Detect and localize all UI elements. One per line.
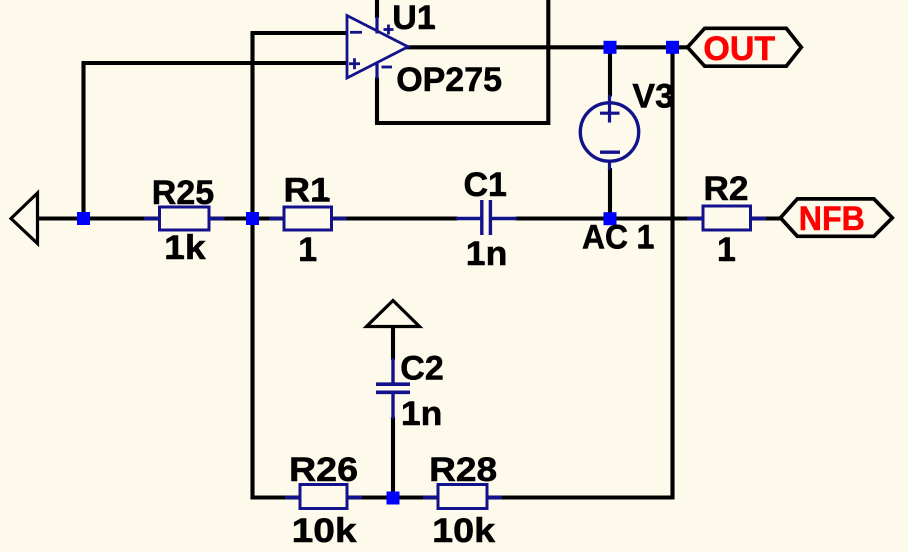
- resistor R2: [687, 206, 766, 230]
- wire ground triangle to C2: [391, 327, 395, 361]
- port triangle input (left): [11, 193, 38, 244]
- wire main horizontal net (y=218.5) right part: [516, 216, 781, 220]
- svg-text:R28: R28: [429, 451, 497, 489]
- svg-text:R26: R26: [289, 451, 358, 489]
- wire right vertical (x=672.5): [670, 47, 674, 499]
- svg-text:OUT: OUT: [703, 30, 775, 68]
- op-amp U1 non-inverting input mark: [349, 58, 360, 69]
- op-amp U1 V- pin: [375, 63, 378, 79]
- wire op-amp non-inverting input (horizontal, y=63): [82, 61, 348, 65]
- wire supply bottom horizontal (y=122.5): [375, 121, 550, 125]
- capacitor C1: [456, 200, 517, 235]
- junction node at input port: [77, 212, 90, 225]
- op-amp U1 inverting input mark: [350, 31, 362, 34]
- svg-text:1k: 1k: [164, 229, 206, 267]
- capacitor C2: [376, 358, 410, 419]
- wire input vertical (x=83.5): [81, 61, 85, 218]
- svg-text:R25: R25: [152, 174, 214, 212]
- svg-text:1: 1: [717, 231, 736, 269]
- net flag NFB hexagon: [780, 199, 892, 236]
- svg-text:C1: C1: [464, 166, 507, 204]
- serif feet of digit 1 glyphs (font detail): [167, 25, 734, 542]
- voltage source V3: [580, 95, 638, 170]
- op-amp U1 V+ plus mark: [384, 25, 394, 35]
- svg-text:NFB: NFB: [799, 200, 865, 238]
- svg-text:C2: C2: [400, 350, 443, 388]
- wire V3 top connection: [608, 47, 612, 96]
- svg-text:10k: 10k: [432, 512, 495, 550]
- svg-text:OP275: OP275: [396, 61, 502, 99]
- svg-text:1: 1: [298, 231, 317, 269]
- wire main horizontal net (y=218.5) left part: [38, 216, 458, 220]
- wire left feedback vertical (x=252.5): [250, 31, 254, 499]
- svg-text:1n: 1n: [466, 235, 508, 273]
- svg-text:10k: 10k: [292, 512, 357, 550]
- port triangle ground (up, above C2): [367, 301, 420, 327]
- svg-text:1n: 1n: [401, 395, 443, 433]
- junction node C2/bottom net: [387, 492, 400, 505]
- op-amp U1 triangle: [347, 16, 408, 79]
- svg-text:U1: U1: [392, 0, 435, 37]
- wire V3 bottom connection: [608, 168, 612, 219]
- junction node V3 bottom/main net: [604, 212, 617, 225]
- resistor R25: [144, 207, 225, 230]
- wire op-amp V- supply down: [375, 78, 379, 126]
- wire bottom horizontal (y=497.5): [251, 495, 675, 499]
- svg-text:V3: V3: [632, 78, 674, 116]
- svg-text:AC 1: AC 1: [582, 218, 655, 256]
- wire op-amp inverting input (horizontal, y=33): [251, 31, 348, 35]
- junction node output/right vertical: [666, 41, 679, 54]
- wire op-amp output (y=47.3): [405, 45, 688, 49]
- junction node feedback/main net: [246, 212, 259, 225]
- svg-text:R1: R1: [284, 171, 331, 209]
- wire C2 to bottom net: [391, 417, 395, 498]
- resistor R1: [269, 207, 347, 230]
- resistor R28: [423, 485, 502, 509]
- junction node output/V3: [604, 41, 617, 54]
- wire supply right vertical (x=548.3): [546, 0, 550, 125]
- op-amp U1 V- minus mark: [382, 66, 393, 69]
- wire op-amp V+ supply up: [375, 0, 379, 18]
- resistor R26: [285, 485, 362, 509]
- op-amp U1 V+ pin: [375, 17, 378, 34]
- net flag OUT hexagon: [688, 28, 802, 66]
- svg-text:R2: R2: [704, 170, 749, 208]
